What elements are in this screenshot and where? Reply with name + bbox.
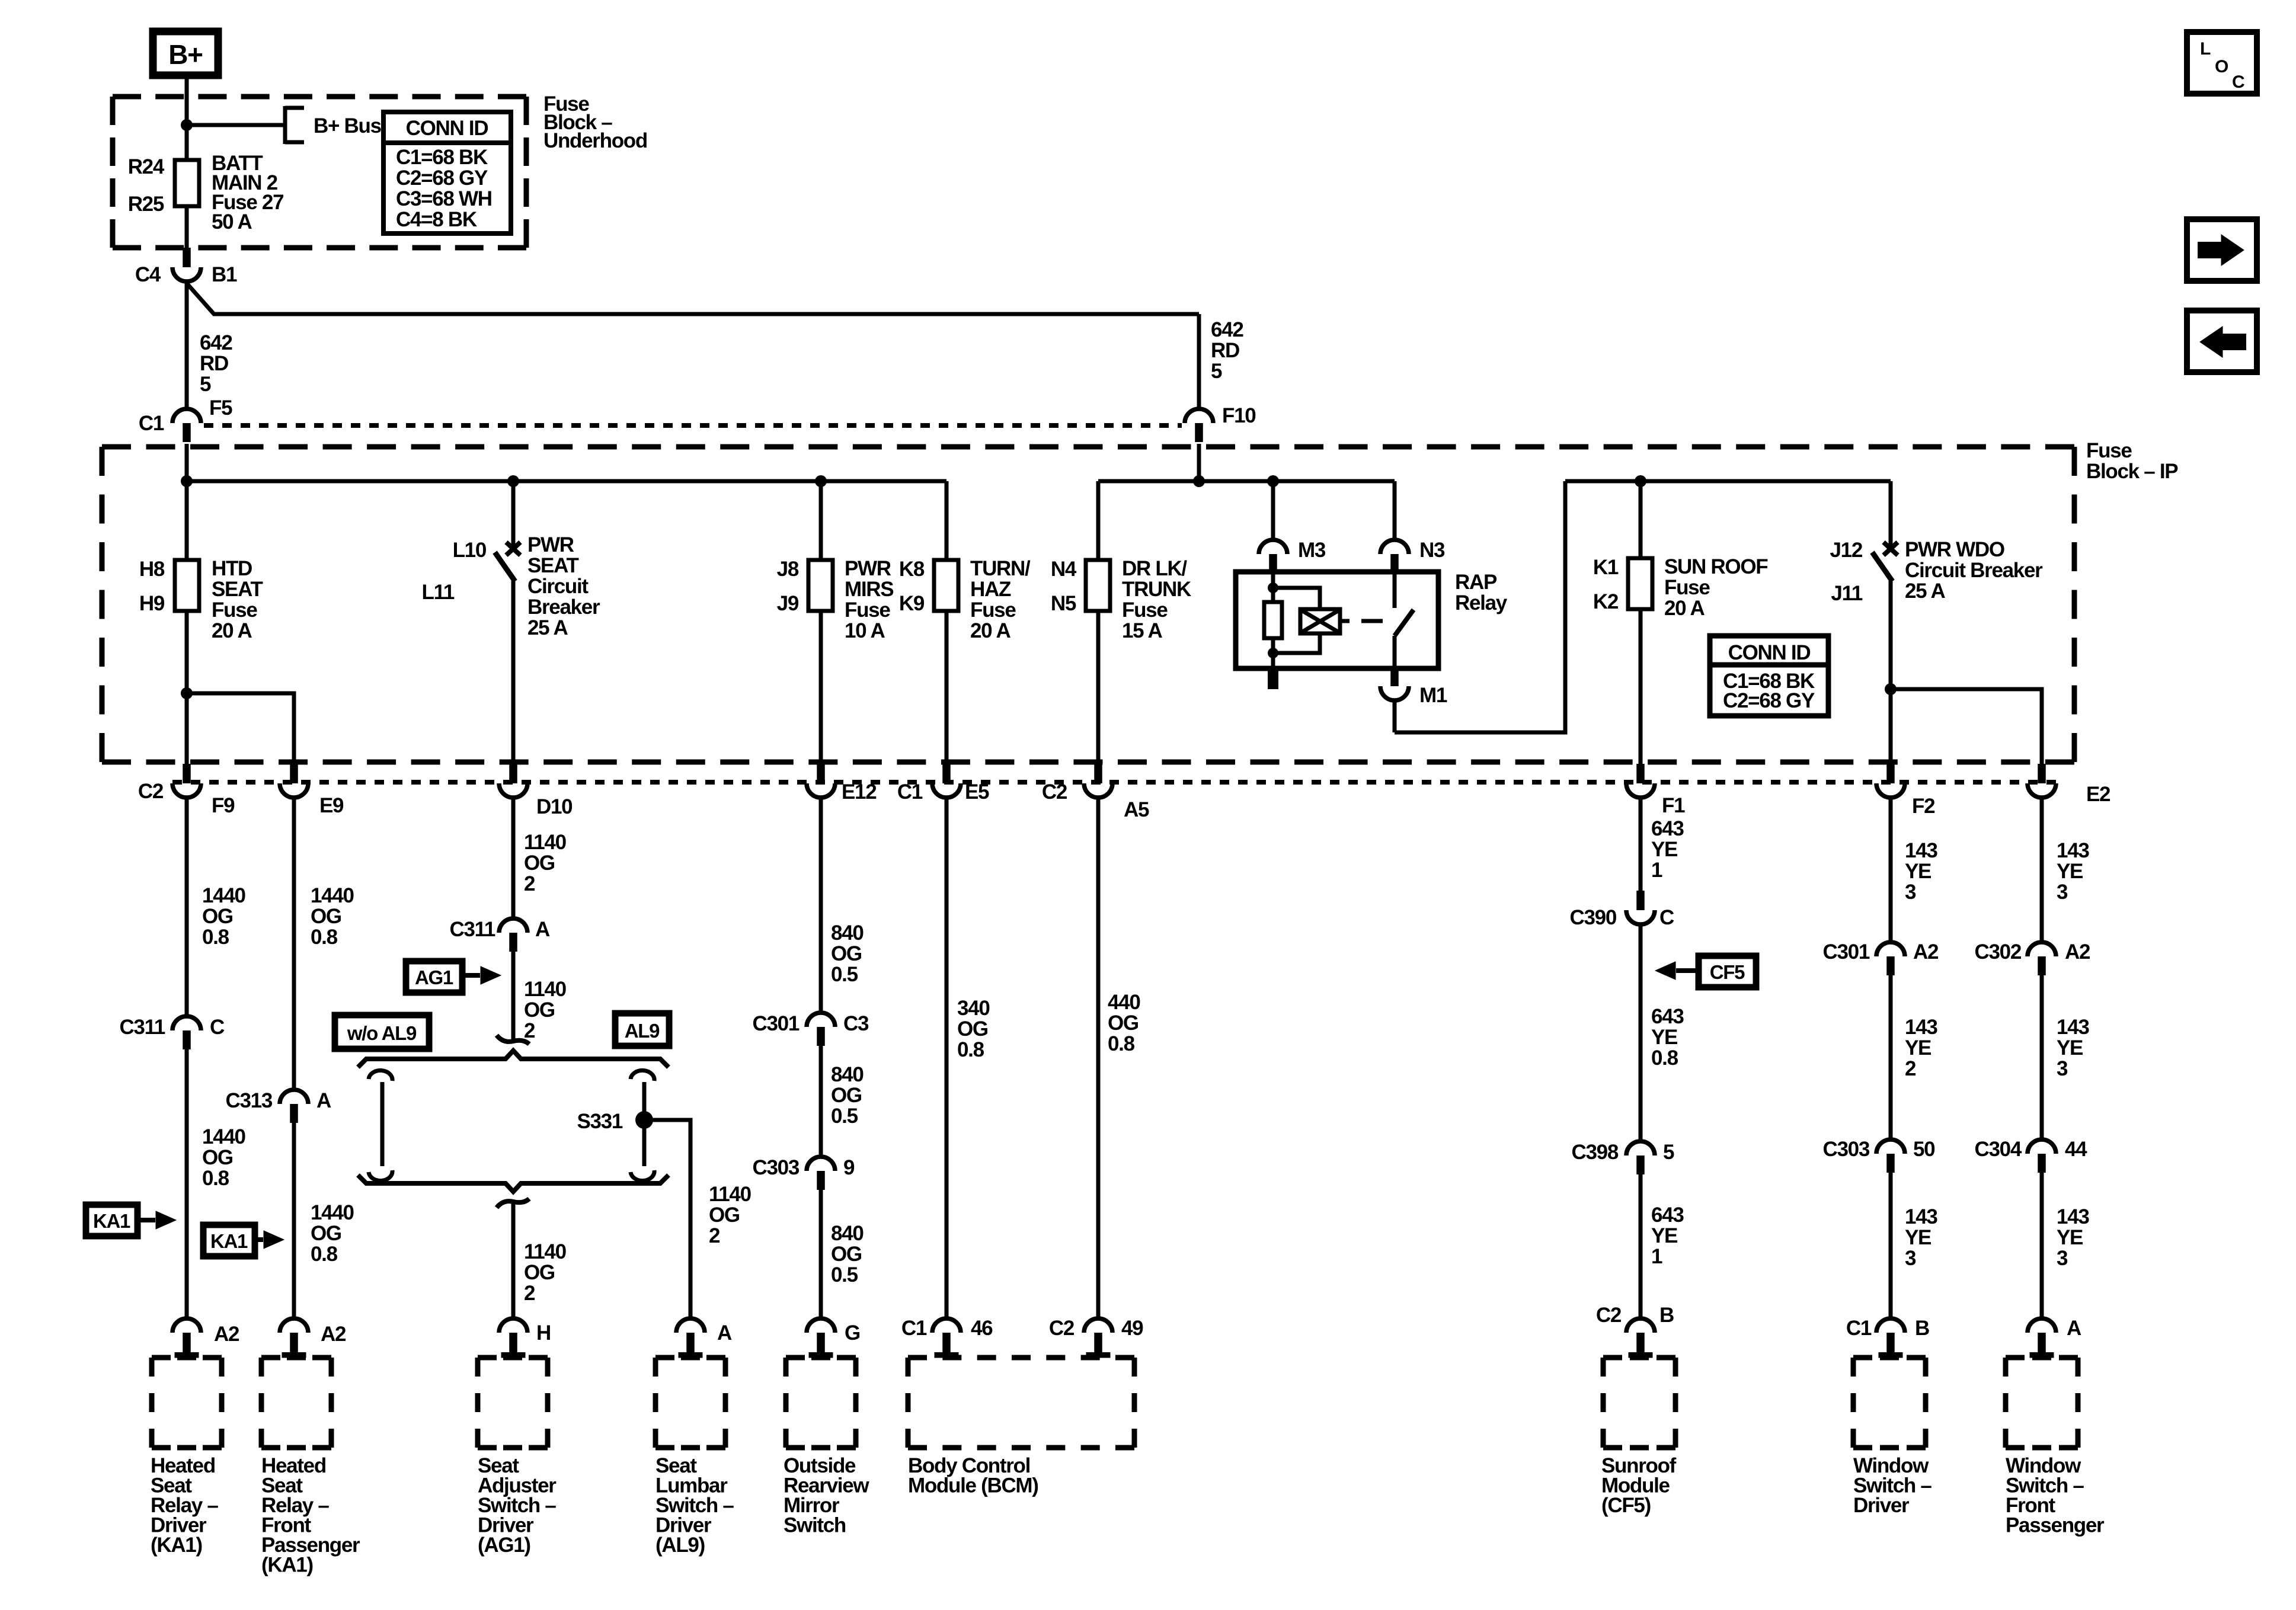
svg-text:C2: C2	[1049, 1317, 1075, 1340]
svg-text:CF5: CF5	[1710, 961, 1745, 983]
svg-text:Fuse: Fuse	[845, 598, 890, 622]
svg-text:C: C	[2232, 72, 2244, 92]
svg-text:0.5: 0.5	[831, 1263, 858, 1286]
svg-text:C2=68 GY: C2=68 GY	[396, 167, 488, 190]
svg-text:C311: C311	[449, 918, 495, 941]
svg-text:SEAT: SEAT	[527, 554, 578, 577]
svg-text:N5: N5	[1051, 592, 1076, 615]
svg-text:C1=68 BK: C1=68 BK	[396, 146, 488, 169]
svg-text:D10: D10	[536, 795, 573, 818]
svg-text:YE: YE	[1905, 1036, 1931, 1060]
svg-text:C1: C1	[901, 1317, 927, 1340]
svg-text:C2: C2	[138, 780, 164, 803]
svg-text:643: 643	[1651, 1204, 1684, 1227]
svg-text:5: 5	[1211, 360, 1222, 383]
svg-text:E12: E12	[842, 780, 877, 804]
svg-text:9: 9	[843, 1156, 855, 1179]
svg-text:C4: C4	[135, 263, 161, 286]
svg-text:20 A: 20 A	[1664, 597, 1705, 620]
svg-text:OG: OG	[524, 852, 555, 875]
svg-text:643: 643	[1651, 817, 1684, 840]
svg-text:H9: H9	[139, 592, 165, 615]
svg-text:3: 3	[1905, 881, 1916, 904]
svg-text:TURN/: TURN/	[970, 557, 1031, 580]
svg-text:F1: F1	[1662, 794, 1685, 817]
svg-text:L: L	[2200, 39, 2211, 59]
svg-text:C303: C303	[1823, 1138, 1870, 1161]
svg-text:840: 840	[831, 921, 864, 945]
svg-text:OG: OG	[957, 1017, 988, 1041]
svg-text:A: A	[535, 918, 550, 941]
svg-text:(CF5): (CF5)	[1601, 1494, 1651, 1517]
svg-text:C301: C301	[753, 1012, 800, 1035]
svg-text:OG: OG	[709, 1204, 740, 1227]
svg-text:1440: 1440	[202, 884, 245, 907]
svg-text:0.8: 0.8	[202, 1167, 229, 1190]
svg-text:H: H	[536, 1321, 551, 1345]
svg-text:G: G	[845, 1321, 860, 1345]
svg-text:C303: C303	[753, 1156, 800, 1179]
svg-text:Driver: Driver	[1853, 1494, 1910, 1517]
svg-text:YE: YE	[1905, 860, 1931, 883]
svg-text:0.5: 0.5	[831, 1105, 858, 1128]
svg-text:YE: YE	[2057, 1226, 2083, 1249]
svg-text:50: 50	[1913, 1138, 1935, 1161]
svg-text:YE: YE	[1905, 1226, 1931, 1249]
svg-text:Block – IP: Block – IP	[2086, 460, 2178, 483]
svg-text:Switch: Switch	[784, 1514, 846, 1537]
svg-text:0.8: 0.8	[1108, 1032, 1135, 1055]
svg-text:Fuse: Fuse	[1664, 576, 1710, 599]
svg-text:Fuse: Fuse	[1122, 598, 1168, 622]
svg-text:2: 2	[524, 1019, 535, 1042]
svg-text:3: 3	[2057, 881, 2068, 904]
svg-text:20 A: 20 A	[970, 619, 1011, 642]
svg-text:1140: 1140	[524, 1240, 567, 1263]
svg-text:OG: OG	[524, 1261, 555, 1284]
svg-text:C301: C301	[1823, 940, 1870, 964]
svg-text:L10: L10	[453, 539, 487, 562]
svg-text:Passenger: Passenger	[2006, 1514, 2105, 1537]
svg-text:340: 340	[957, 997, 990, 1020]
svg-text:PWR: PWR	[845, 557, 891, 580]
svg-text:F2: F2	[1912, 795, 1935, 818]
svg-text:0.8: 0.8	[311, 926, 338, 949]
svg-text:YE: YE	[1651, 838, 1677, 861]
svg-text:C398: C398	[1572, 1141, 1619, 1164]
svg-text:w/o AL9: w/o AL9	[347, 1022, 417, 1044]
svg-text:C: C	[210, 1016, 225, 1039]
svg-text:YE: YE	[1651, 1224, 1677, 1247]
svg-text:(AL9): (AL9)	[655, 1534, 705, 1557]
svg-text:E5: E5	[965, 780, 989, 804]
svg-text:Fuse: Fuse	[2086, 439, 2132, 462]
svg-text:C1: C1	[897, 780, 923, 804]
svg-text:C304: C304	[1975, 1138, 2022, 1161]
svg-text:MIRS: MIRS	[845, 578, 893, 601]
svg-text:1140: 1140	[709, 1183, 752, 1206]
svg-text:Underhood: Underhood	[543, 129, 647, 152]
svg-text:1140: 1140	[524, 978, 567, 1001]
svg-text:YE: YE	[1651, 1026, 1677, 1049]
svg-text:L11: L11	[422, 581, 455, 604]
svg-text:50 A: 50 A	[212, 210, 252, 233]
svg-text:C390: C390	[1570, 906, 1617, 929]
svg-text:M1: M1	[1419, 684, 1447, 707]
svg-text:YE: YE	[2057, 1036, 2083, 1060]
svg-text:20 A: 20 A	[212, 619, 252, 642]
svg-text:A: A	[2067, 1317, 2081, 1340]
svg-text:RD: RD	[1211, 339, 1239, 362]
svg-text:E2: E2	[2086, 783, 2110, 806]
svg-text:143: 143	[1905, 839, 1937, 862]
svg-text:642: 642	[200, 331, 232, 354]
svg-text:2: 2	[524, 872, 535, 895]
svg-text:440: 440	[1108, 991, 1140, 1014]
svg-text:OG: OG	[831, 1243, 862, 1266]
svg-text:25 A: 25 A	[527, 616, 568, 639]
svg-text:C2=68 GY: C2=68 GY	[1723, 689, 1815, 712]
svg-text:1: 1	[1651, 859, 1662, 882]
svg-text:C2: C2	[1042, 780, 1067, 804]
svg-text:C1: C1	[1846, 1317, 1872, 1340]
svg-text:C3=68 WH: C3=68 WH	[396, 187, 492, 210]
svg-text:C302: C302	[1975, 940, 2022, 964]
svg-text:643: 643	[1651, 1005, 1684, 1028]
svg-text:C4=8 BK: C4=8 BK	[396, 208, 477, 231]
svg-text:Relay: Relay	[1455, 591, 1508, 614]
svg-text:(KA1): (KA1)	[151, 1534, 202, 1557]
svg-text:AL9: AL9	[625, 1020, 660, 1042]
svg-text:0.5: 0.5	[831, 963, 858, 986]
svg-text:1440: 1440	[202, 1125, 245, 1148]
svg-text:N4: N4	[1051, 558, 1077, 581]
svg-text:25 A: 25 A	[1905, 580, 1945, 603]
svg-text:B+ Bus: B+ Bus	[314, 114, 382, 137]
svg-text:KA1: KA1	[93, 1210, 130, 1232]
svg-text:3: 3	[2057, 1057, 2068, 1080]
svg-text:J11: J11	[1831, 582, 1862, 605]
svg-text:J9: J9	[777, 592, 799, 615]
svg-text:(AG1): (AG1)	[478, 1534, 530, 1557]
svg-text:OG: OG	[831, 1084, 862, 1107]
svg-text:10 A: 10 A	[845, 619, 885, 642]
svg-text:143: 143	[1905, 1016, 1937, 1039]
svg-text:B: B	[1915, 1317, 1929, 1340]
svg-text:143: 143	[2057, 839, 2089, 862]
svg-text:0.8: 0.8	[202, 926, 229, 949]
svg-text:5: 5	[1663, 1141, 1674, 1164]
svg-text:HTD: HTD	[212, 557, 252, 580]
svg-text:A2: A2	[214, 1323, 239, 1346]
svg-text:Fuse: Fuse	[970, 598, 1016, 622]
svg-text:SUN ROOF: SUN ROOF	[1664, 555, 1768, 578]
svg-text:RAP: RAP	[1455, 571, 1497, 594]
svg-text:C2: C2	[1596, 1304, 1622, 1327]
svg-text:K8: K8	[899, 558, 925, 581]
svg-text:C311: C311	[119, 1016, 165, 1039]
svg-text:Circuit: Circuit	[527, 575, 589, 598]
svg-text:840: 840	[831, 1063, 864, 1086]
svg-text:642: 642	[1211, 318, 1243, 341]
svg-text:J12: J12	[1830, 539, 1863, 562]
svg-text:B1: B1	[212, 263, 237, 286]
svg-text:PWR: PWR	[527, 533, 574, 556]
svg-text:Breaker: Breaker	[527, 596, 600, 619]
svg-text:A5: A5	[1124, 798, 1149, 821]
svg-text:CONN ID: CONN ID	[1728, 641, 1811, 664]
svg-text:143: 143	[2057, 1205, 2089, 1228]
svg-text:S331: S331	[577, 1110, 622, 1133]
svg-text:0.8: 0.8	[957, 1038, 984, 1061]
svg-text:R24: R24	[128, 155, 165, 178]
svg-text:K9: K9	[899, 592, 925, 615]
svg-text:2: 2	[709, 1224, 720, 1247]
svg-text:O: O	[2215, 57, 2228, 76]
svg-text:A2: A2	[2065, 940, 2090, 964]
svg-text:SEAT: SEAT	[212, 578, 263, 601]
svg-text:(KA1): (KA1)	[261, 1554, 313, 1577]
svg-text:F10: F10	[1222, 404, 1256, 427]
svg-text:143: 143	[2057, 1016, 2089, 1039]
svg-text:M3: M3	[1298, 539, 1326, 562]
svg-text:Module (BCM): Module (BCM)	[908, 1474, 1038, 1497]
svg-text:3: 3	[2057, 1247, 2068, 1270]
svg-text:0.8: 0.8	[1651, 1046, 1678, 1070]
svg-text:OG: OG	[202, 1146, 233, 1169]
svg-text:0.8: 0.8	[311, 1243, 338, 1266]
svg-text:K1: K1	[1593, 556, 1619, 579]
svg-text:A2: A2	[321, 1323, 346, 1346]
svg-text:B: B	[1659, 1304, 1674, 1327]
svg-text:CONN ID: CONN ID	[406, 117, 488, 140]
svg-text:C3: C3	[843, 1012, 869, 1035]
svg-text:C1: C1	[139, 412, 164, 435]
svg-text:A2: A2	[1913, 940, 1939, 964]
svg-text:K2: K2	[1593, 590, 1619, 613]
svg-text:1140: 1140	[524, 831, 567, 854]
svg-text:DR LK/: DR LK/	[1122, 557, 1187, 580]
svg-text:3: 3	[1905, 1247, 1916, 1270]
svg-text:840: 840	[831, 1222, 864, 1245]
svg-text:Circuit Breaker: Circuit Breaker	[1905, 559, 2043, 582]
svg-text:5: 5	[200, 373, 211, 396]
svg-text:Fuse: Fuse	[212, 598, 257, 622]
svg-text:OG: OG	[831, 942, 862, 965]
svg-text:44: 44	[2065, 1138, 2087, 1161]
svg-text:R25: R25	[128, 193, 164, 216]
svg-text:A: A	[316, 1089, 331, 1112]
svg-text:2: 2	[1905, 1057, 1916, 1080]
svg-text:15 A: 15 A	[1122, 619, 1162, 642]
svg-text:OG: OG	[311, 905, 341, 928]
svg-text:C313: C313	[226, 1089, 273, 1112]
svg-text:E9: E9	[319, 794, 344, 817]
svg-text:1440: 1440	[311, 1201, 354, 1224]
svg-text:H8: H8	[139, 558, 165, 581]
svg-text:N3: N3	[1419, 539, 1445, 562]
svg-text:1: 1	[1651, 1245, 1662, 1268]
svg-text:F9: F9	[212, 794, 235, 817]
svg-text:1440: 1440	[311, 884, 354, 907]
svg-text:J8: J8	[777, 558, 799, 581]
svg-text:C: C	[1659, 906, 1674, 929]
svg-text:49: 49	[1121, 1317, 1143, 1340]
svg-text:F5: F5	[209, 396, 232, 420]
svg-text:B+: B+	[168, 39, 202, 70]
svg-text:HAZ: HAZ	[970, 578, 1011, 601]
svg-text:OG: OG	[524, 998, 555, 1022]
svg-text:YE: YE	[2057, 860, 2083, 883]
svg-text:OG: OG	[311, 1222, 341, 1245]
svg-text:OG: OG	[1108, 1012, 1139, 1035]
svg-text:AG1: AG1	[415, 966, 453, 988]
svg-text:46: 46	[971, 1317, 993, 1340]
svg-text:OG: OG	[202, 905, 233, 928]
svg-text:TRUNK: TRUNK	[1122, 578, 1191, 601]
svg-text:KA1: KA1	[210, 1230, 248, 1252]
svg-text:RD: RD	[200, 352, 228, 375]
svg-text:143: 143	[1905, 1205, 1937, 1228]
svg-text:2: 2	[524, 1282, 535, 1305]
svg-text:A: A	[717, 1321, 732, 1345]
svg-text:PWR WDO: PWR WDO	[1905, 538, 2004, 561]
